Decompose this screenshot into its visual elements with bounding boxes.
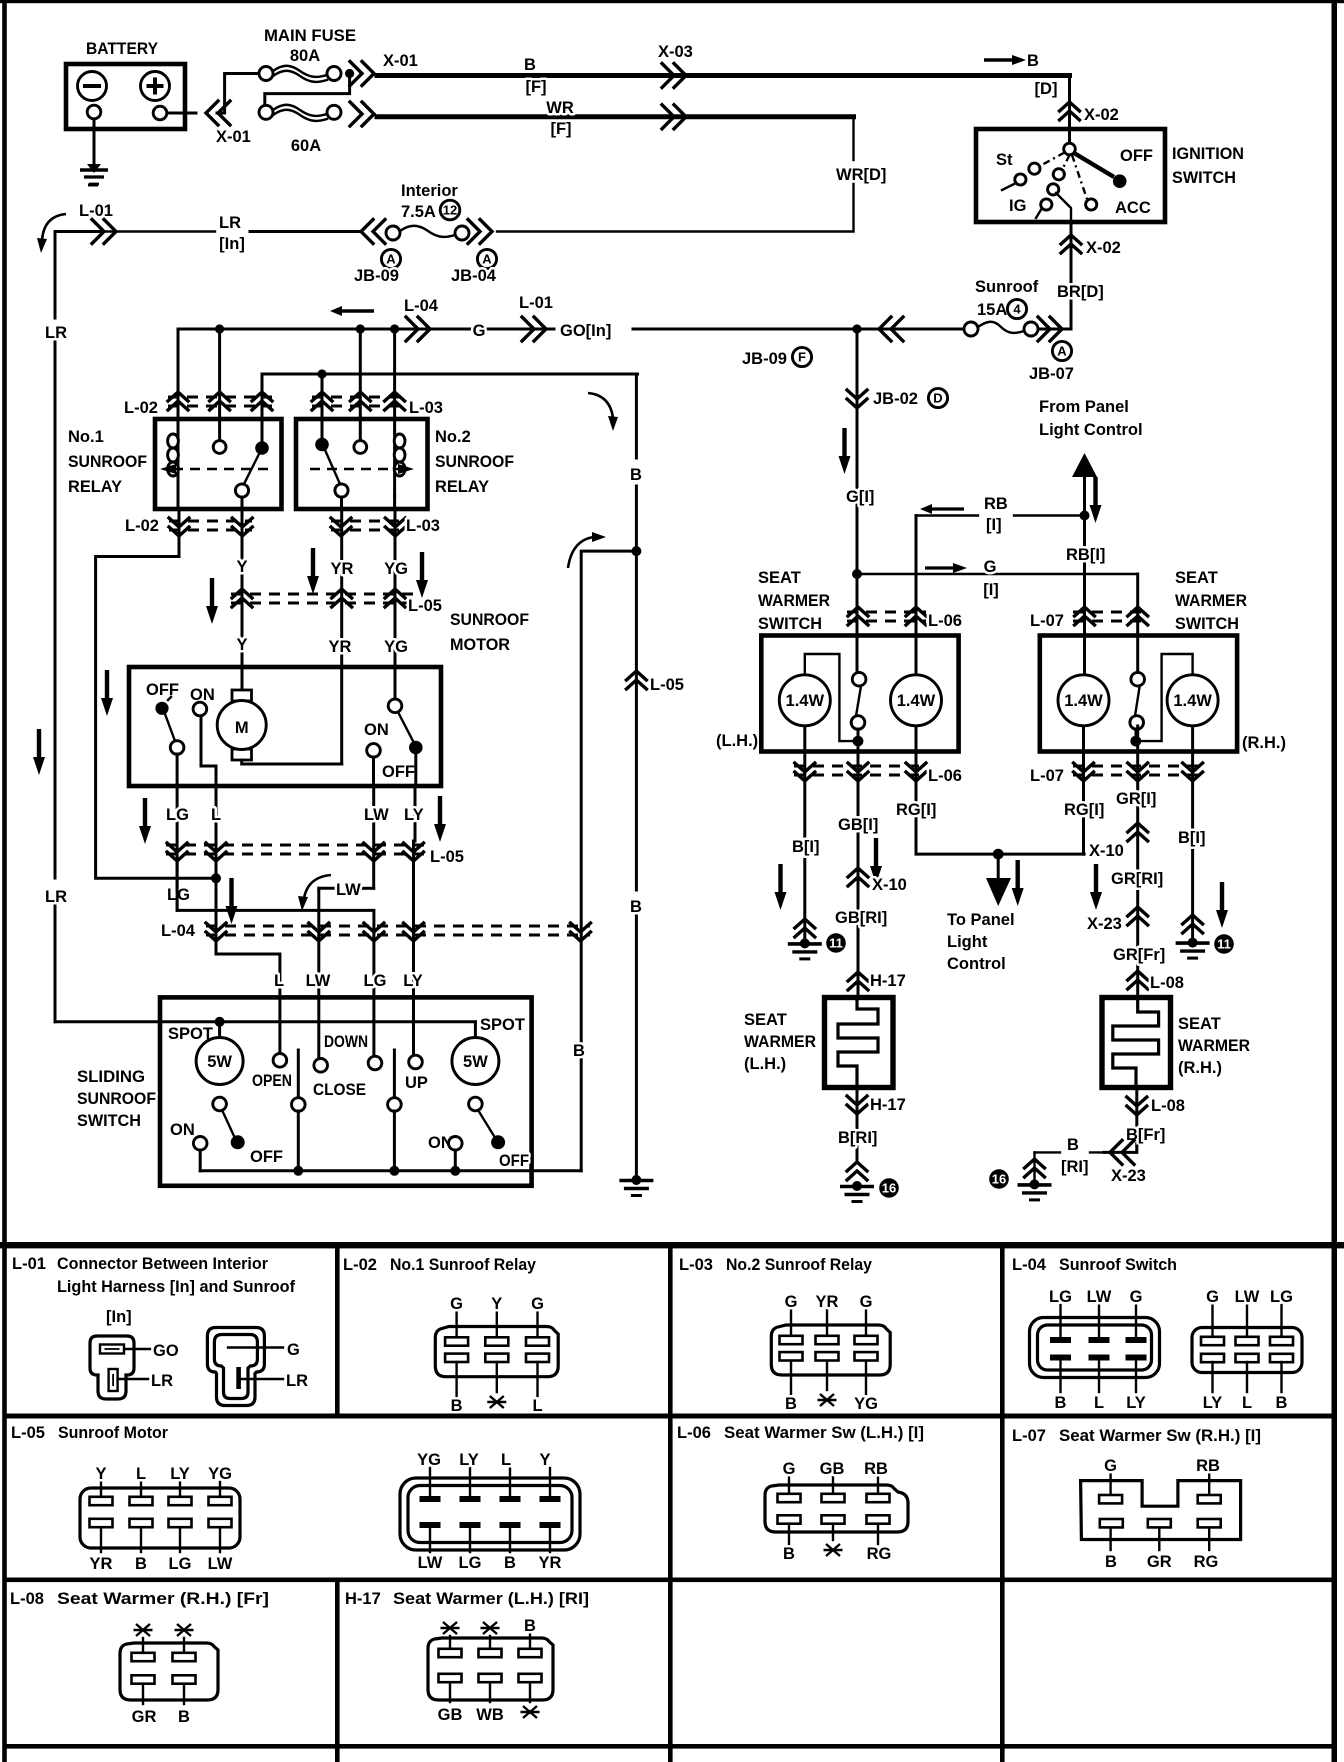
annotation arrow beside From Panel xyxy=(1090,477,1102,523)
svg-text:Sunroof: Sunroof xyxy=(975,278,1039,296)
svg-text:UP: UP xyxy=(405,1074,428,1092)
svg-text:LW: LW xyxy=(306,972,331,990)
svg-text:LR: LR xyxy=(151,1372,173,1390)
svg-text:B: B xyxy=(1027,52,1039,70)
svg-text:JB-09: JB-09 xyxy=(742,350,787,368)
svg-text:L: L xyxy=(136,1465,146,1483)
To Panel arrow down xyxy=(986,854,1011,906)
svg-text:G: G xyxy=(473,322,486,340)
motor limit switch left ON xyxy=(190,686,216,786)
connector H-17 chevron top xyxy=(848,972,868,990)
wire RG[I] left box to junction xyxy=(916,726,1084,854)
connector X-02 chevron top xyxy=(1060,102,1080,120)
svg-text:B: B xyxy=(630,466,642,484)
svg-text:RG: RG xyxy=(867,1545,892,1563)
svg-text:11: 11 xyxy=(1217,937,1231,952)
svg-text:L-02: L-02 xyxy=(125,517,159,535)
ground chevron B[I] left xyxy=(795,919,815,937)
branch 80A junction down to 60A fuse xyxy=(265,74,350,106)
svg-text:L-04: L-04 xyxy=(161,922,196,940)
CLOSE contact xyxy=(313,997,366,1099)
svg-text:WARMER: WARMER xyxy=(758,592,830,610)
annotation arrows below motor xyxy=(139,798,151,844)
svg-text:To Panel: To Panel xyxy=(947,911,1015,929)
fuse 80A xyxy=(259,66,341,82)
direction arrow above G bus xyxy=(330,306,374,316)
svg-text:B: B xyxy=(524,56,536,74)
sunroof motor box xyxy=(129,667,441,786)
wire B[I] right to ground xyxy=(1191,726,1194,940)
svg-text:YG: YG xyxy=(384,560,408,578)
svg-text:1.4W: 1.4W xyxy=(786,692,825,710)
wire G bus sunroof fuse to left xyxy=(178,328,964,331)
connector drawing L-05 male xyxy=(400,1451,580,1572)
badge F JB-09 xyxy=(792,347,811,366)
svg-text:[RI]: [RI] xyxy=(1061,1158,1089,1176)
svg-text:No.1: No.1 xyxy=(68,428,104,446)
svg-text:B: B xyxy=(524,1617,536,1635)
junction dot G bus relay2 pin3 xyxy=(390,324,399,333)
svg-text:B: B xyxy=(135,1555,147,1573)
svg-text:X-01: X-01 xyxy=(383,52,418,70)
svg-text:G: G xyxy=(984,558,997,576)
svg-text:No.2: No.2 xyxy=(435,428,471,446)
annotation arrow on G[I] xyxy=(839,428,851,474)
fuse 60A xyxy=(259,105,341,121)
svg-text:G: G xyxy=(531,1295,544,1313)
svg-text:A: A xyxy=(386,252,396,267)
svg-text:JB-07: JB-07 xyxy=(1029,365,1074,383)
svg-text:L-04: L-04 xyxy=(404,297,439,315)
wire WR[F] thick xyxy=(377,114,854,119)
connector row L-04 xyxy=(161,922,591,941)
svg-text:SEAT: SEAT xyxy=(1175,569,1218,587)
wire relay1 coil return to left xyxy=(96,509,216,878)
wire B[RI] to ground right xyxy=(1104,1146,1137,1152)
wire battery minus to ground xyxy=(93,119,96,165)
wire NC bus y374: relay1 pin3 / relay2 pin1 / B xyxy=(262,374,638,442)
UP contact xyxy=(405,1055,428,1092)
connector drawing L-01 female xyxy=(90,1336,179,1399)
annotation arrow beside coil return xyxy=(101,670,113,716)
svg-text:JB-04: JB-04 xyxy=(451,267,497,285)
svg-text:GR[Fr]: GR[Fr] xyxy=(1113,946,1165,964)
wire X-01 to main fuse xyxy=(217,74,259,114)
switch common bus xyxy=(200,1169,581,1172)
connector row L-03 top xyxy=(312,392,443,417)
svg-text:[D]: [D] xyxy=(1035,80,1058,98)
svg-text:RELAY: RELAY xyxy=(68,478,122,496)
small dash mark top left xyxy=(88,184,98,187)
svg-text:G: G xyxy=(783,1460,796,1478)
curved arrow at B branch xyxy=(568,537,594,568)
svg-text:5W: 5W xyxy=(207,1053,232,1071)
battery minus post xyxy=(87,105,101,119)
svg-text:Interior: Interior xyxy=(401,182,458,200)
svg-text:SUNROOF: SUNROOF xyxy=(68,453,147,471)
svg-text:LW: LW xyxy=(364,806,389,824)
svg-text:LW: LW xyxy=(418,1554,443,1572)
relay No.1 coil xyxy=(168,432,179,509)
svg-text:LR: LR xyxy=(45,324,67,342)
ground chevron B[I] right xyxy=(1183,915,1203,933)
connector drawing L-03 xyxy=(771,1293,890,1413)
wire LR left vertical xyxy=(54,232,57,318)
svg-text:LW: LW xyxy=(336,881,361,899)
wire G down to right box switch xyxy=(1136,574,1139,679)
svg-text:GB: GB xyxy=(438,1706,463,1724)
svg-text:SUNROOF: SUNROOF xyxy=(435,453,514,471)
connector JB-09 chevron interior xyxy=(361,220,385,244)
wire LG jog right xyxy=(177,860,374,997)
connector X-01 chevron on WR wire xyxy=(350,102,374,126)
connector L-05 chevron on B xyxy=(626,671,646,689)
curved arrow at top of B xyxy=(588,393,613,418)
junction dot on main B xyxy=(631,546,641,556)
badge 16 left xyxy=(879,1178,899,1198)
svg-text:X-03: X-03 xyxy=(658,43,693,61)
svg-text:L-01: L-01 xyxy=(12,1255,46,1273)
slider blade 2 xyxy=(388,1050,402,1171)
RH box internals xyxy=(1058,654,1218,746)
svg-text:Seat Warmer Sw (R.H.) [I]: Seat Warmer Sw (R.H.) [I] xyxy=(1059,1427,1261,1445)
svg-text:A: A xyxy=(482,252,492,267)
connector X-03 chevron on B xyxy=(662,64,686,88)
connector drawing L-02 xyxy=(435,1295,558,1415)
svg-text:[I]: [I] xyxy=(983,581,999,599)
OPEN contact xyxy=(252,1054,292,1091)
svg-text:MOTOR: MOTOR xyxy=(450,636,510,654)
svg-text:M: M xyxy=(235,719,249,737)
svg-text:L-04: L-04 xyxy=(1012,1256,1047,1274)
svg-text:OFF: OFF xyxy=(146,681,179,699)
svg-text:OFF: OFF xyxy=(250,1148,283,1166)
svg-text:LR: LR xyxy=(286,1372,308,1390)
svg-text:Control: Control xyxy=(947,955,1006,973)
connector JB-09 F chevron xyxy=(879,317,903,341)
svg-text:B: B xyxy=(1067,1136,1079,1154)
connector JB-07 chevron xyxy=(1038,317,1062,341)
svg-text:LG: LG xyxy=(1270,1288,1293,1306)
svg-text:1.4W: 1.4W xyxy=(1173,692,1212,710)
svg-text:G: G xyxy=(1206,1288,1219,1306)
connector L-08 chevron top xyxy=(1128,971,1148,989)
svg-text:L-05: L-05 xyxy=(430,848,464,866)
junction dot G bus relay1 pin2 xyxy=(215,324,224,333)
direction arrow right on G xyxy=(925,563,967,573)
badge 12 circled xyxy=(440,200,460,220)
svg-text:GR: GR xyxy=(132,1708,157,1726)
wire G[I] down xyxy=(856,329,859,673)
main B wire down to ground xyxy=(635,374,638,1177)
svg-text:L: L xyxy=(211,806,221,824)
curved arrow at LW xyxy=(304,875,331,898)
wire relay2 pin2 xyxy=(359,329,362,441)
junction dot at left spot lamp xyxy=(215,1017,225,1027)
connector drawing L-05 female xyxy=(80,1465,240,1573)
svg-text:(R.H.): (R.H.) xyxy=(1242,734,1286,752)
connector row L-06 top xyxy=(847,607,962,630)
svg-text:L-02: L-02 xyxy=(124,399,158,417)
svg-text:G[I]: G[I] xyxy=(846,488,874,506)
svg-text:LY: LY xyxy=(459,1451,479,1469)
svg-text:X-01: X-01 xyxy=(216,128,251,146)
svg-text:G: G xyxy=(287,1341,300,1359)
ground far right xyxy=(1018,1179,1052,1200)
svg-text:RB: RB xyxy=(1196,1457,1220,1475)
svg-text:Seat Warmer Sw (L.H.) [I]: Seat Warmer Sw (L.H.) [I] xyxy=(724,1424,924,1442)
svg-text:WR: WR xyxy=(546,99,574,117)
svg-text:60A: 60A xyxy=(291,137,321,155)
svg-text:H-17: H-17 xyxy=(870,1096,906,1114)
svg-text:H-17: H-17 xyxy=(870,972,906,990)
svg-text:G: G xyxy=(1104,1457,1117,1475)
svg-text:GB[I]: GB[I] xyxy=(838,816,878,834)
svg-text:B: B xyxy=(1055,1394,1067,1412)
svg-text:X-02: X-02 xyxy=(1084,106,1119,124)
svg-text:BR[D]: BR[D] xyxy=(1057,283,1104,301)
svg-text:LW: LW xyxy=(208,1555,233,1573)
connector X-23 chevron xyxy=(1128,907,1148,925)
connector row L-07 top xyxy=(1030,607,1148,630)
junction dot L wire / coil return xyxy=(211,873,221,883)
annotation arrow on LR wire xyxy=(33,729,45,775)
relay No.2 contacts xyxy=(315,438,366,509)
spot lamp left 5W xyxy=(168,1022,243,1111)
svg-text:GO: GO xyxy=(153,1342,179,1360)
svg-text:Y: Y xyxy=(539,1451,550,1469)
svg-text:LY: LY xyxy=(403,972,423,990)
svg-text:80A: 80A xyxy=(290,47,320,65)
svg-text:SEAT: SEAT xyxy=(758,569,801,587)
svg-text:YR: YR xyxy=(90,1555,113,1573)
svg-text:L-07: L-07 xyxy=(1030,767,1064,785)
svg-text:SLIDING: SLIDING xyxy=(77,1068,145,1086)
G bus corner down to relay1 pin1 xyxy=(177,329,180,432)
connector X-03 chevron on WR xyxy=(662,105,686,129)
LG contact xyxy=(368,997,382,1070)
svg-text:L-07: L-07 xyxy=(1012,1427,1046,1445)
svg-text:(L.H.): (L.H.) xyxy=(744,1055,786,1073)
connector X-02 chevron bottom xyxy=(1061,235,1081,253)
svg-text:No.2 Sunroof Relay: No.2 Sunroof Relay xyxy=(726,1256,873,1274)
connector row L-05 upper xyxy=(231,589,442,615)
svg-text:LR: LR xyxy=(219,214,241,232)
connector row L-02 bottom xyxy=(125,517,252,536)
connector X-01 chevron on B wire xyxy=(350,62,374,86)
svg-text:Y: Y xyxy=(236,558,247,576)
svg-text:WR[D]: WR[D] xyxy=(836,166,886,184)
connector drawing L-06 xyxy=(765,1460,908,1563)
annotation arrow at junction xyxy=(226,878,238,924)
svg-text:1.4W: 1.4W xyxy=(897,692,936,710)
svg-text:LY: LY xyxy=(170,1465,190,1483)
svg-text:Seat Warmer (R.H.) [Fr]: Seat Warmer (R.H.) [Fr] xyxy=(57,1590,269,1608)
wire B[D] down to ignition xyxy=(1068,76,1071,130)
connector X-01 battery chevron xyxy=(206,101,230,125)
wire L to OPEN contact xyxy=(216,940,280,1053)
junction dot G bus / G[I] xyxy=(852,324,861,333)
annotation arrows relay outputs xyxy=(206,578,218,624)
svg-text:GR[I]: GR[I] xyxy=(1116,790,1156,808)
svg-text:16: 16 xyxy=(882,1181,896,1196)
spot switch right xyxy=(428,1110,529,1171)
svg-text:D: D xyxy=(933,391,942,406)
svg-text:L-01: L-01 xyxy=(519,294,553,312)
svg-text:RB: RB xyxy=(984,495,1008,513)
svg-text:B: B xyxy=(630,898,642,916)
wire GB[I] xyxy=(857,741,860,997)
sliding sunroof switch box xyxy=(160,997,532,1185)
svg-text:LG: LG xyxy=(169,1555,192,1573)
ignition switch box xyxy=(976,129,1165,222)
svg-text:RB: RB xyxy=(864,1460,888,1478)
svg-text:L: L xyxy=(1094,1394,1104,1412)
svg-text:G: G xyxy=(860,1293,873,1311)
connector L-08 chevron bottom xyxy=(1135,1088,1138,1147)
wire fuse to BR[D] corner xyxy=(1038,328,1071,331)
svg-text:B: B xyxy=(1276,1394,1288,1412)
svg-text:SUNROOF: SUNROOF xyxy=(77,1090,156,1108)
svg-text:Seat Warmer (L.H.) [RI]: Seat Warmer (L.H.) [RI] xyxy=(393,1590,589,1608)
svg-text:LW: LW xyxy=(1087,1288,1112,1306)
seat warmer switch box RH xyxy=(1040,636,1237,752)
badge 4 circled xyxy=(1007,299,1026,318)
seat warmer LH heater box xyxy=(825,998,894,1088)
svg-text:L: L xyxy=(1242,1394,1252,1412)
connector row L-07 bottom xyxy=(1030,763,1204,785)
svg-text:L-08: L-08 xyxy=(10,1590,44,1608)
connector L-01 chevron xyxy=(92,220,116,244)
battery plus post xyxy=(153,106,167,120)
svg-text:ON: ON xyxy=(170,1121,195,1139)
svg-text:X-10: X-10 xyxy=(1089,842,1124,860)
svg-text:B: B xyxy=(451,1397,463,1415)
relay No.2 coil xyxy=(394,432,405,509)
svg-text:GO[In]: GO[In] xyxy=(560,322,611,340)
svg-text:Y: Y xyxy=(95,1465,106,1483)
svg-text:YG: YG xyxy=(208,1465,232,1483)
svg-text:L-06: L-06 xyxy=(928,767,962,785)
badge 16 right xyxy=(989,1169,1009,1189)
heater element LH xyxy=(838,998,878,1088)
svg-text:B: B xyxy=(178,1708,190,1726)
motor M xyxy=(217,690,266,760)
connector L-04 chevron on bus xyxy=(406,317,430,341)
svg-text:SWITCH: SWITCH xyxy=(1172,169,1236,187)
connector row L-03 bottom xyxy=(331,517,440,536)
svg-text:16: 16 xyxy=(992,1172,1006,1187)
battery plus terminal symbol xyxy=(141,72,170,101)
seat warmer switch box LH xyxy=(761,636,958,752)
svg-text:F: F xyxy=(798,350,806,365)
svg-text:RG[I]: RG[I] xyxy=(1064,801,1104,819)
wire RB[I] down to left box right bulb xyxy=(915,516,918,675)
connector drawing L-01 male xyxy=(207,1328,308,1406)
curved arrow at L-01 xyxy=(42,214,66,240)
svg-text:OFF: OFF xyxy=(1120,147,1153,165)
connector JB-04 chevron xyxy=(468,220,492,244)
svg-text:(L.H.): (L.H.) xyxy=(716,732,758,750)
ground chevron B[RI] right xyxy=(1025,1159,1045,1177)
spot lamp right 5W xyxy=(452,1016,525,1111)
spot switch left xyxy=(170,1110,283,1171)
slider blade 1 xyxy=(292,1050,306,1171)
wire YG relay2 to motor xyxy=(394,509,397,699)
connector X-10 chevron left xyxy=(848,868,868,886)
svg-text:L: L xyxy=(501,1451,511,1469)
svg-text:X-02: X-02 xyxy=(1086,239,1121,257)
wire LW jog left xyxy=(319,888,374,997)
junction dot after 80A xyxy=(345,69,354,78)
fuse Sunroof 15A xyxy=(964,322,1038,336)
svg-text:B[I]: B[I] xyxy=(792,838,820,856)
svg-text:L-06: L-06 xyxy=(677,1424,711,1442)
svg-text:Sunroof Switch: Sunroof Switch xyxy=(1059,1256,1177,1274)
connector drawing L-04 female xyxy=(1192,1288,1302,1412)
svg-text:YG: YG xyxy=(417,1451,441,1469)
wire LR[In] interior line xyxy=(100,230,360,232)
svg-text:B: B xyxy=(573,1042,585,1060)
connector row L-02 top xyxy=(124,392,272,417)
connector X-10 chevron right xyxy=(1128,823,1148,841)
svg-text:GR[RI]: GR[RI] xyxy=(1111,870,1163,888)
svg-text:DOWN: DOWN xyxy=(324,1033,368,1051)
wire GR right box down xyxy=(1136,726,1139,997)
wire LR into switch box xyxy=(55,1020,475,1023)
svg-text:L-07: L-07 xyxy=(1030,612,1064,630)
svg-text:L: L xyxy=(274,972,284,990)
svg-text:YG: YG xyxy=(854,1395,878,1413)
svg-text:15A: 15A xyxy=(977,301,1007,319)
svg-text:G: G xyxy=(1130,1288,1143,1306)
wire YR relay2 to motor xyxy=(340,509,343,764)
svg-text:X-23: X-23 xyxy=(1111,1167,1146,1185)
wire ignition to sunroof fuse BR[D] xyxy=(1070,222,1073,329)
svg-text:L-03: L-03 xyxy=(409,399,443,417)
svg-text:[I]: [I] xyxy=(986,516,1002,534)
svg-text:L-05: L-05 xyxy=(650,676,684,694)
fuse Interior 7.5A xyxy=(386,226,469,240)
svg-text:L-02: L-02 xyxy=(343,1256,377,1274)
svg-text:YR: YR xyxy=(329,638,352,656)
svg-text:LG: LG xyxy=(1049,1288,1072,1306)
motor bottom wire to YR xyxy=(242,760,342,764)
svg-text:SEAT: SEAT xyxy=(744,1011,787,1029)
svg-text:Connector Between Interior: Connector Between Interior xyxy=(57,1255,269,1273)
svg-text:B: B xyxy=(785,1395,797,1413)
svg-text:B[RI]: B[RI] xyxy=(838,1129,877,1147)
relay No.1 box xyxy=(155,419,282,509)
svg-text:1.4W: 1.4W xyxy=(1064,692,1103,710)
svg-text:L-05: L-05 xyxy=(408,597,442,615)
svg-text:GR: GR xyxy=(1147,1553,1172,1571)
svg-text:YR: YR xyxy=(331,560,354,578)
svg-text:JB-09: JB-09 xyxy=(354,267,399,285)
svg-text:4: 4 xyxy=(1013,302,1021,317)
svg-text:BATTERY: BATTERY xyxy=(86,40,158,58)
svg-text:12: 12 xyxy=(443,203,457,218)
svg-text:CLOSE: CLOSE xyxy=(313,1081,366,1099)
svg-text:[F]: [F] xyxy=(525,78,546,96)
wire RB horizontal xyxy=(916,514,1085,516)
svg-text:IGNITION: IGNITION xyxy=(1172,145,1244,163)
svg-text:LY: LY xyxy=(1126,1394,1146,1412)
svg-text:[In]: [In] xyxy=(219,235,245,253)
wire WR[D]: right end down and back to interior fuse line xyxy=(852,117,854,160)
svg-text:WARMER: WARMER xyxy=(1178,1037,1250,1055)
connector drawing L-04 male xyxy=(1030,1288,1160,1412)
